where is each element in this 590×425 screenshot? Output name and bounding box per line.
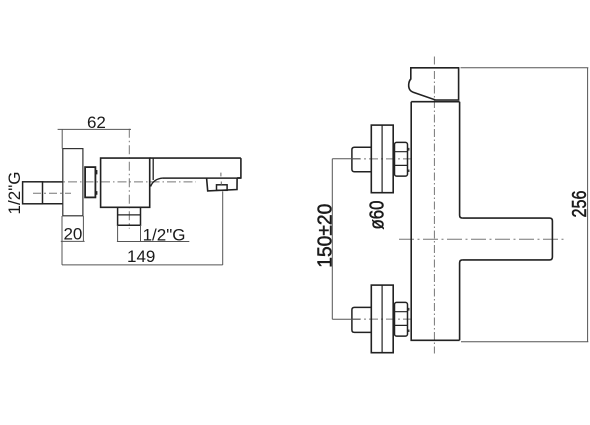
upper flange disc divider xyxy=(381,125,383,193)
lower flange disc xyxy=(371,285,393,353)
upper flange disc xyxy=(371,125,393,193)
adapter ring xyxy=(85,167,95,197)
spout underside xyxy=(163,177,241,179)
upper nut xyxy=(395,142,408,176)
wall plate xyxy=(63,149,83,216)
svg-text:256: 256 xyxy=(569,191,590,218)
lower supply pipe xyxy=(352,307,371,332)
dimension 62 extension xyxy=(61,129,63,148)
wire: spout horizontal axis (dash-dot) xyxy=(399,238,567,240)
adapter ring ticks xyxy=(96,170,98,195)
upper nut flats xyxy=(395,152,408,166)
bottom outlet divider xyxy=(118,214,141,216)
body column xyxy=(411,102,462,341)
wire: lower flange axis (dash-dot) xyxy=(352,318,415,320)
spout end xyxy=(237,158,241,178)
dimension 150 bottom extension xyxy=(332,318,360,320)
mixer body (side) xyxy=(101,158,150,207)
wire: pipe axis (dash-dot) xyxy=(33,192,71,194)
supply pipe stub xyxy=(43,182,63,204)
upper nut ticks xyxy=(408,148,410,172)
aerator housing xyxy=(207,178,238,191)
dimension 149 right extension xyxy=(222,191,224,265)
svg-text:ø60: ø60 xyxy=(367,201,389,230)
spout front xyxy=(462,218,552,260)
upper supply pipe xyxy=(352,147,371,172)
spout underside curve xyxy=(151,178,163,186)
spout joint ring xyxy=(152,158,154,180)
dimension 20 extensions xyxy=(62,216,83,265)
svg-text:20: 20 xyxy=(63,225,82,244)
dimension 20 line xyxy=(61,240,85,242)
svg-text:149: 149 xyxy=(127,247,155,266)
lower nut ticks xyxy=(408,308,410,332)
leader 1/2G bottom xyxy=(117,225,189,241)
wire: upper flange axis (dash-dot) xyxy=(352,158,415,160)
spout top xyxy=(150,157,241,159)
dimension 150 line xyxy=(331,159,333,320)
lower nut flats xyxy=(395,312,408,326)
wire: vertical axis (dash-dot) xyxy=(433,57,435,354)
lower nut xyxy=(395,302,408,336)
dimension 62 line xyxy=(58,128,131,130)
dimension 150 top extension xyxy=(332,158,360,160)
svg-text:150±20: 150±20 xyxy=(315,204,337,268)
wire: valve vertical axis (dash-dot) xyxy=(128,129,130,229)
lower flange disc divider xyxy=(381,285,383,353)
bottom outlet 1/2G xyxy=(118,207,141,225)
dimension 149 line xyxy=(62,264,223,266)
handle lever xyxy=(409,68,459,100)
dimension 256 top extension xyxy=(461,67,589,69)
dimension 256 bottom extension xyxy=(461,341,588,343)
supply pipe nut xyxy=(23,182,43,204)
svg-text:1/2"G: 1/2"G xyxy=(143,225,186,244)
diverter knob xyxy=(217,185,228,191)
svg-text:1/2"G: 1/2"G xyxy=(5,172,24,215)
svg-text:62: 62 xyxy=(87,113,106,132)
dimension 256 line xyxy=(587,68,589,342)
wire: body horizontal axis (dash-dot) xyxy=(35,181,196,183)
aerator axis (dashed) xyxy=(220,173,222,185)
